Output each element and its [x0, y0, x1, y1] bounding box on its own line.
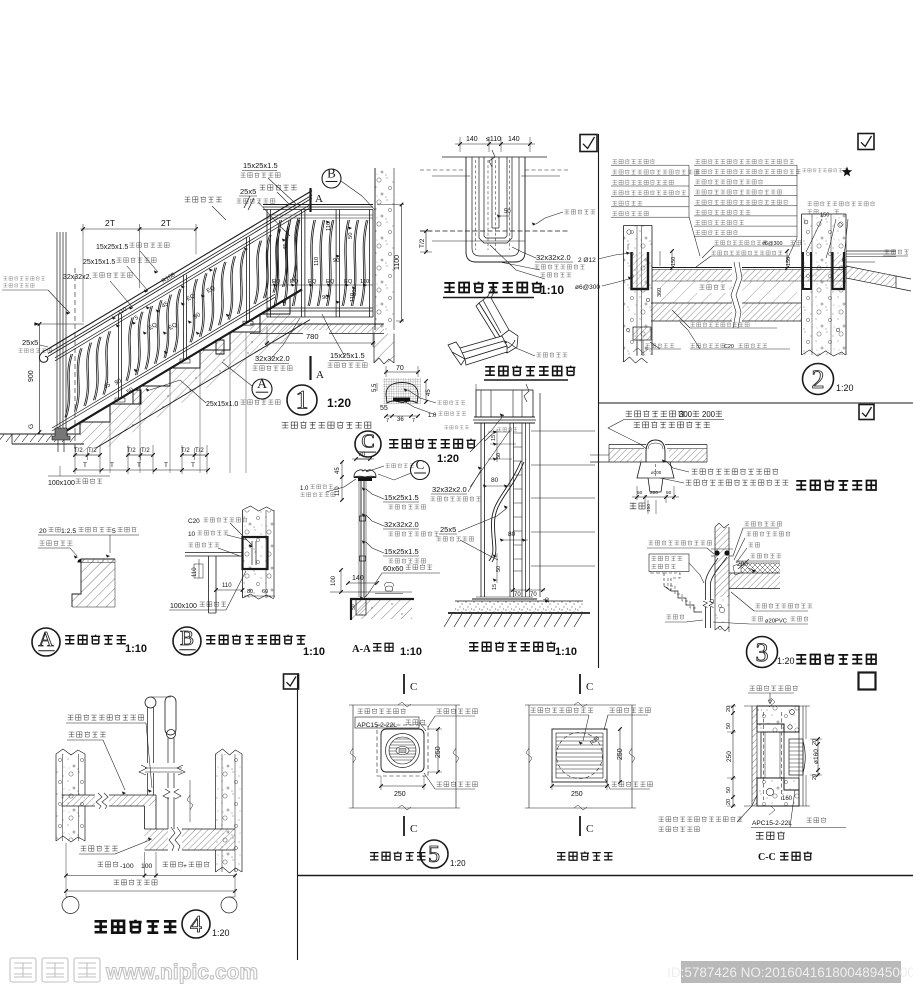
svg-text:T/2: T/2: [88, 448, 97, 454]
svg-text:32x32x2.0: 32x32x2.0: [432, 485, 467, 494]
svg-text:55: 55: [380, 405, 388, 412]
elevation s-curve flat bar: [489, 461, 521, 561]
svg-text:1:10: 1:10: [400, 646, 422, 658]
title handrail turn perspective: [485, 366, 575, 376]
svg-text:20: 20: [812, 739, 818, 745]
dimension 780: [266, 327, 268, 347]
stair waist thick line: [60, 289, 302, 434]
wall below slab: [374, 334, 394, 363]
svg-text:110: 110: [360, 279, 369, 285]
wood section dims: [386, 371, 418, 373]
svg-text:140: 140: [508, 136, 520, 143]
sunken fill: [660, 281, 797, 303]
stairwell pipes: [145, 697, 156, 708]
rainplan dims: [636, 486, 638, 500]
svg-text:32x32x2.: 32x32x2.: [63, 274, 91, 281]
svg-text:ø100: ø100: [651, 470, 662, 475]
antiskid hatch: [72, 559, 115, 607]
exterior vent frame: [525, 704, 636, 706]
dimension 2T top: [82, 224, 84, 234]
roof slope right: [846, 266, 896, 288]
detailB wall: [243, 510, 275, 598]
svg-text:www.nipic.com: www.nipic.com: [105, 961, 258, 984]
svg-text:ø6@300: ø6@300: [575, 284, 600, 291]
elevation rungs: [514, 432, 523, 434]
svg-text:25x15x1.5: 25x15x1.5: [83, 259, 115, 266]
elevation base plate: [472, 598, 537, 600]
svg-text:250: 250: [571, 791, 583, 798]
svg-text:110: 110: [222, 583, 232, 589]
drip detail bottom left: [633, 327, 651, 340]
turn plan center slot: [491, 157, 493, 228]
A-A top leader shanzhang: [386, 463, 415, 467]
hoist hook lines: [151, 696, 172, 698]
elevation right horizontals: [531, 430, 595, 432]
elevation ground: [455, 601, 583, 612]
border line right-top region: [598, 134, 600, 668]
CC dims right: [817, 739, 819, 775]
wood section grid box: [383, 378, 421, 404]
dashed guide line: [74, 268, 76, 452]
svg-text:T: T: [83, 462, 87, 469]
title handrail turn plan: [444, 282, 542, 293]
svg-text:A: A: [315, 193, 323, 205]
ground hatch left: [0, 433, 12, 435]
svg-text:100: 100: [141, 863, 153, 870]
windowsill right: [846, 250, 896, 252]
turn plan horizontal lines: [442, 156, 547, 158]
svg-text:G: G: [28, 424, 35, 429]
svg-text:A: A: [316, 369, 324, 381]
svg-text:2 Ø12: 2 Ø12: [578, 257, 596, 264]
svg-text:36: 36: [397, 417, 404, 423]
stairwell leaders: [68, 714, 144, 720]
antiskid step profile: [72, 559, 115, 607]
section mark B: [322, 169, 341, 188]
elevation top leader: [497, 427, 517, 431]
wood section aluminum plate: [393, 398, 410, 402]
exterior vent labels: [531, 707, 593, 712]
inner leaders detail2: [714, 245, 800, 247]
svg-text:50: 50: [348, 233, 354, 239]
detailB post: [208, 556, 210, 613]
svg-text:100x100: 100x100: [48, 480, 75, 487]
pipes break marks: [140, 763, 185, 773]
svg-text:T/2: T/2: [127, 448, 136, 454]
break mark middle: [732, 260, 742, 328]
A-A base floor: [330, 591, 412, 593]
detailB rail: [185, 552, 243, 554]
stair balusters: [117, 314, 119, 398]
svg-text:C20: C20: [188, 518, 200, 525]
stairwell right wall: [216, 754, 243, 872]
title interior wall elevation: [370, 852, 425, 861]
svg-text:25x5: 25x5: [240, 187, 256, 196]
label shanzhang wood top: [260, 184, 297, 190]
exterior vent louvre: [552, 729, 607, 782]
handrail end curl: [39, 349, 48, 362]
svg-text:T/2: T/2: [141, 448, 150, 454]
support text: [697, 283, 729, 293]
turn plan dashed axis: [420, 230, 568, 232]
elevation columns: [480, 423, 482, 597]
svg-text:250: 250: [435, 746, 442, 758]
star note: [802, 168, 847, 172]
svg-text:50: 50: [637, 490, 643, 496]
right leader block: [808, 201, 875, 206]
svg-text:1:10: 1:10: [125, 643, 147, 655]
interior vent dims: [381, 785, 424, 787]
svg-text:80: 80: [247, 589, 253, 595]
svg-text:5: 5: [112, 528, 116, 535]
black square C-C region: [859, 673, 876, 690]
break mark top: [489, 150, 495, 167]
title shanzhang wood handrail detail: [355, 431, 381, 457]
CC louvre door: [789, 739, 803, 775]
svg-text:T/2: T/2: [419, 238, 426, 248]
svg-text:1:2.5: 1:2.5: [61, 528, 76, 535]
label shanzhang wood handrail stair: [185, 196, 222, 202]
elevation cap break: [524, 384, 529, 402]
title stairwell cap: [95, 920, 177, 933]
svg-text:50: 50: [504, 209, 511, 215]
svg-text:20: 20: [726, 706, 732, 712]
wall break bottoms: [624, 357, 648, 363]
panel top rail: [263, 204, 373, 206]
CC right wall lines: [798, 706, 800, 806]
rainsec left leaders: [649, 540, 712, 545]
svg-text:APC15-2-22L: APC15-2-22L: [752, 820, 792, 827]
svg-text:15x25x1.5: 15x25x1.5: [384, 493, 419, 502]
elevation cap box: [476, 390, 533, 417]
svg-text:300: 300: [679, 410, 693, 419]
svg-text:100: 100: [331, 575, 337, 586]
svg-text:32x32x2.0: 32x32x2.0: [384, 520, 419, 529]
stairwell gap verticals: [189, 780, 191, 822]
label surface line: [565, 209, 596, 214]
border thick line bottom: [298, 875, 913, 877]
watermark nipic logo: [10, 958, 100, 982]
title handrail turn elevation: [469, 642, 556, 652]
svg-text:7: 7: [386, 418, 389, 424]
svg-text:32x32x2.0: 32x32x2.0: [255, 354, 290, 363]
svg-text:7: 7: [412, 418, 415, 424]
A-A slab edge thick: [350, 598, 414, 600]
svg-text:T/2: T/2: [181, 448, 190, 454]
panel EQ row: [270, 284, 373, 286]
svg-text:250: 250: [726, 751, 733, 762]
note stack right: [694, 164, 797, 166]
CC labels: [750, 685, 798, 690]
bottom leaders detail2: [690, 327, 777, 329]
svg-text:45: 45: [426, 389, 432, 396]
rainplan right leaders: [692, 468, 778, 474]
label interface note left: [3, 276, 44, 280]
svg-text:2T: 2T: [105, 218, 115, 228]
CC top break: [744, 705, 810, 707]
stair waist underside: [96, 320, 310, 448]
label embedded plate 100x100: [48, 475, 110, 477]
exterior vent dims: [552, 785, 607, 787]
detail bubble B handrail end fixing: [173, 627, 201, 655]
turn plan dashed rails: [475, 160, 477, 250]
stair arrow dots: [116, 324, 120, 327]
CC fan box: [761, 732, 784, 778]
svg-text:15x25x1.5: 15x25x1.5: [384, 547, 419, 556]
axis bubbles: [62, 897, 79, 914]
wood handrail profile: [386, 383, 418, 404]
svg-text:45: 45: [283, 244, 289, 250]
detail bubble 1: [287, 385, 317, 415]
CC hatch strip: [752, 706, 757, 806]
svg-text:20: 20: [726, 799, 732, 805]
note text under bubble 1: [282, 421, 371, 428]
note stack right leader: [786, 165, 797, 262]
svg-text:EQ: EQ: [290, 279, 299, 285]
rainsec collar sealant: [714, 550, 719, 555]
baluster step bases: [133, 390, 141, 404]
svg-text:50: 50: [726, 723, 732, 729]
antiskid nosing strip: [78, 559, 82, 563]
interior vent labels: [358, 708, 406, 713]
svg-text:C: C: [361, 431, 374, 453]
svg-text:60: 60: [262, 589, 268, 595]
A-A joints: [360, 516, 366, 521]
stairwell upper slab: [62, 794, 157, 796]
A-A dim 70: [356, 458, 370, 460]
A-A dims left: [341, 462, 343, 477]
note stack left: [611, 164, 689, 166]
svg-text:#6@300: #6@300: [762, 241, 782, 247]
svg-text:1: 1: [296, 386, 309, 415]
interior vent frame: [349, 704, 460, 706]
svg-text:90: 90: [333, 258, 339, 264]
right wall detail2: [802, 214, 847, 355]
svg-text:50: 50: [726, 787, 732, 793]
svg-text:1:20: 1:20: [450, 859, 466, 868]
svg-text:70: 70: [396, 365, 404, 372]
svg-text:140: 140: [352, 575, 364, 582]
newel base plate: [52, 428, 70, 440]
svg-text:110: 110: [192, 567, 198, 577]
svg-text:1100: 1100: [394, 255, 401, 270]
newel post left: [56, 232, 58, 434]
left wall detail2: [624, 226, 653, 356]
svg-text:A: A: [257, 377, 268, 392]
turn plan dims top: [459, 137, 461, 152]
svg-text:1:20: 1:20: [327, 396, 351, 410]
rainplan band: [609, 444, 646, 446]
stair s-bars: [65, 354, 71, 417]
panel bottom rail: [267, 307, 373, 309]
A-A post embed dark: [356, 599, 366, 615]
A-A handrail top profile: [354, 470, 376, 477]
svg-text:B: B: [327, 166, 336, 181]
svg-text:T/2: T/2: [195, 448, 204, 454]
A-A post: [360, 481, 362, 597]
svg-text:ID:5787426 NO:2016041618004894: ID:5787426 NO:20160416180048945000: [667, 965, 913, 980]
rainplan skirt: [637, 462, 674, 492]
top frame tube: [55, 205, 309, 357]
rainsec downpipe: [706, 558, 719, 628]
svg-text:110: 110: [335, 486, 341, 496]
svg-text:C: C: [586, 681, 593, 693]
svg-text:EQ: EQ: [344, 279, 353, 285]
svg-text:T: T: [110, 462, 114, 469]
svg-text:T: T: [164, 462, 168, 469]
checkbox top-left of detail 2: [580, 135, 597, 152]
stairwell left wall: [56, 754, 85, 841]
svg-text:50: 50: [666, 490, 672, 496]
svg-text:ø160: ø160: [813, 749, 820, 764]
interior vent fan: [381, 729, 424, 772]
svg-text:15: 15: [492, 584, 498, 590]
rainsec pipe break: [702, 600, 714, 607]
interior vent gridline C: [403, 674, 405, 694]
section cut A bottom: [309, 356, 311, 380]
note stack left leader: [689, 165, 700, 256]
dim 150 inner left: [659, 251, 661, 266]
svg-text:15: 15: [491, 435, 497, 441]
svg-text:T/2: T/2: [74, 448, 83, 454]
rainplan funnel: [646, 440, 665, 462]
CC dims left: [732, 706, 734, 806]
svg-text:15x25x1.5: 15x25x1.5: [243, 161, 278, 170]
svg-text:15x25x1.5: 15x25x1.5: [330, 351, 365, 360]
svg-text:20: 20: [39, 528, 47, 535]
svg-text:T: T: [191, 462, 195, 469]
svg-text:140: 140: [466, 136, 478, 143]
svg-text:60x60: 60x60: [383, 564, 403, 573]
label roof level: [885, 249, 909, 254]
svg-text:200: 200: [702, 410, 716, 419]
bottom frame tube: [52, 294, 275, 428]
svg-text:1:10: 1:10: [303, 646, 325, 658]
detail bubble A antiskid: [32, 628, 60, 656]
svg-text:B: B: [180, 626, 194, 650]
rainsec parapet wall: [714, 527, 716, 597]
svg-text:50: 50: [351, 604, 357, 610]
svg-text:15x25x1.5: 15x25x1.5: [96, 244, 128, 251]
svg-text:25x15x1.0: 25x15x1.0: [206, 401, 238, 408]
svg-text:110: 110: [314, 257, 320, 266]
CC bottom wall block: [757, 778, 799, 806]
rainplan note topleft: [626, 410, 685, 416]
svg-text:1:20: 1:20: [836, 383, 854, 393]
exterior vent gridline C: [579, 674, 581, 694]
floor slab under panel: [250, 323, 384, 325]
step nose extension lines: [109, 408, 111, 473]
svg-text:110: 110: [350, 293, 356, 302]
svg-text:100x100: 100x100: [170, 603, 197, 610]
svg-text:32x32x2.0: 32x32x2.0: [536, 253, 571, 262]
title exterior wall elevation: [557, 852, 612, 861]
svg-text:-100: -100: [120, 863, 134, 870]
turn plan dim T/2: [425, 231, 427, 252]
detail bubble 3: [747, 637, 778, 668]
handrail perspective sketch: [448, 288, 518, 365]
CC waiqiang yong: [756, 831, 785, 839]
title rainwater section: [796, 654, 876, 664]
svg-text:20: 20: [812, 774, 818, 780]
svg-text:EQ: EQ: [308, 279, 317, 285]
svg-text:C20: C20: [724, 344, 734, 350]
elevation ground hatch: [444, 614, 452, 627]
panel s-bars: [274, 220, 280, 306]
svg-text:5.5: 5.5: [372, 383, 378, 392]
section cut A top: [309, 188, 311, 212]
rainsec right leaders: [745, 521, 782, 526]
svg-text:3: 3: [756, 638, 769, 667]
svg-text:C: C: [410, 823, 417, 835]
bottom slab detail2: [651, 302, 801, 304]
CC top wall block: [757, 706, 799, 732]
svg-text:25x5: 25x5: [440, 525, 456, 534]
rainsec right lower leaders: [756, 603, 813, 608]
svg-text:900: 900: [28, 370, 35, 382]
svg-text:EQ: EQ: [272, 279, 281, 285]
footer id bar: [681, 961, 901, 983]
turn plan inner U: [479, 157, 512, 243]
svg-text:A: A: [38, 627, 54, 651]
elevation cap molding: [474, 416, 535, 418]
svg-text:780: 780: [306, 332, 319, 341]
border line bottom-left region: [297, 674, 299, 960]
rainsec wall below: [714, 597, 716, 630]
svg-text:10: 10: [188, 531, 196, 538]
svg-text:1:20: 1:20: [437, 453, 459, 465]
right stirrups: [803, 252, 811, 289]
detailB plate: [243, 537, 268, 569]
floor slab detail2: [652, 267, 846, 269]
panel posts: [266, 210, 268, 318]
detail bubble 2: [803, 364, 834, 395]
dimension 1100 right: [377, 204, 404, 206]
svg-text:1.0: 1.0: [300, 486, 309, 492]
svg-text:T: T: [137, 462, 141, 469]
svg-text:80: 80: [508, 531, 516, 538]
detail bubble 4: [182, 910, 210, 938]
svg-text:1:20: 1:20: [212, 928, 230, 938]
checkbox bottom-left region: [284, 674, 299, 689]
svg-text:C: C: [410, 681, 417, 693]
rainplan terrace label: [630, 503, 645, 509]
wood section labels: [438, 400, 465, 404]
left stirrup U: [632, 252, 649, 289]
svg-text:45: 45: [335, 467, 341, 474]
svg-text:ø20PVC: ø20PVC: [765, 619, 787, 625]
svg-text:2T: 2T: [161, 218, 171, 228]
svg-text:200: 200: [650, 490, 658, 496]
rainsec insulation: [741, 563, 780, 573]
svg-text:150: 150: [646, 504, 652, 512]
svg-text:360: 360: [657, 288, 663, 297]
svg-text:1:10: 1:10: [555, 646, 577, 658]
svg-text:C: C: [586, 823, 593, 835]
svg-text:70: 70: [514, 592, 521, 598]
elevation right wall line: [539, 393, 541, 597]
svg-text:80: 80: [491, 477, 499, 484]
CC fan hole dashed: [763, 712, 765, 800]
handrail wood profile: [48, 191, 312, 349]
title rainwater plan: [796, 480, 876, 490]
antiskid tile layer: [81, 562, 115, 564]
stair steps: [12, 296, 290, 434]
wall right of panel: [374, 168, 376, 330]
checkbox right of rainwater plan: [859, 405, 874, 420]
rainsec roof slab: [729, 572, 780, 574]
svg-text:A-A: A-A: [352, 644, 371, 655]
